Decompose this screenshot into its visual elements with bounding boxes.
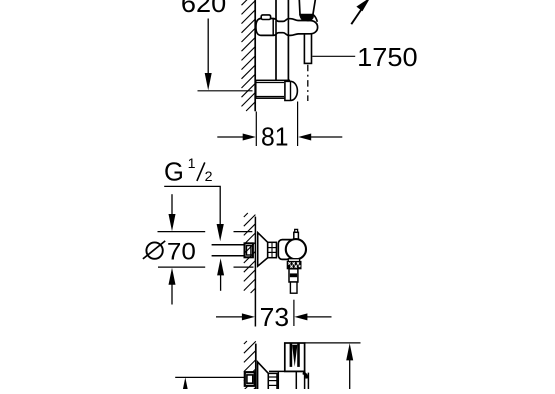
rail edges visible through slider <box>275 21 277 34</box>
svg-text:G: G <box>164 159 184 187</box>
wall face line (bottom drawing) <box>255 344 257 389</box>
dimension 73 extension line (right) <box>293 300 295 326</box>
dimension 620 arrow <box>207 19 209 75</box>
dimension 73 arrows + lines <box>216 316 245 318</box>
handle arc (dark, bottom drawing) <box>303 373 307 379</box>
wall face line (upper drawing) <box>254 0 256 111</box>
supply hex nut (bottom drawing) <box>245 372 255 386</box>
svg-text:73: 73 <box>260 304 290 332</box>
supply pipe behind wall <box>212 244 245 246</box>
wall hatching (bottom drawing) <box>244 341 256 390</box>
rail wall bracket arm <box>256 80 289 98</box>
top stub knob <box>295 229 298 232</box>
bottom-left arrow (up) <box>182 377 189 394</box>
bottom-right extension line <box>305 342 361 344</box>
hose centreline (dash-dot) <box>307 65 309 101</box>
shower outlet tube <box>289 269 298 282</box>
dimension 81 extension lines <box>255 112 257 147</box>
flow direction arrow (top right) <box>351 9 362 25</box>
hand shower spray face (dark) <box>299 14 314 21</box>
valve body <box>278 240 295 260</box>
valve body (bottom drawing, top view) <box>269 371 308 390</box>
svg-text:2: 2 <box>205 169 213 185</box>
escutcheon cone (bottom drawing, top view) <box>258 362 269 390</box>
adapter ring <box>268 242 277 257</box>
wall hatching (top view wall, upper drawing) <box>242 0 256 111</box>
G 1/2 leader line <box>164 186 220 226</box>
hose end leader line to 1750 <box>312 55 355 57</box>
D70 upper extension line <box>158 231 206 233</box>
cup collar right of spray face <box>314 15 318 22</box>
wall hatching (middle drawing) <box>244 213 256 293</box>
knurled hose nut (crosshatched) <box>288 259 299 262</box>
bracket end cap <box>285 81 298 100</box>
slider holder + shower cup body <box>256 19 318 36</box>
D70 lower extension line <box>158 266 205 268</box>
adapter ring (bottom drawing) <box>268 373 277 390</box>
bottom-right arrow (up) <box>346 343 353 360</box>
svg-text:1750: 1750 <box>357 44 418 72</box>
svg-text:620: 620 <box>181 0 226 18</box>
svg-text:1: 1 <box>188 156 196 172</box>
dimension D70 upper arrow <box>171 194 173 215</box>
hand shower handle <box>299 0 315 15</box>
hose outlet seen end-on (bottom drawing) <box>285 343 305 371</box>
temperature knob (circle) <box>286 239 306 259</box>
dimension D70 text <box>146 242 162 258</box>
escutcheon cone <box>258 233 268 267</box>
slider release button <box>261 15 270 20</box>
G 1/2 lower arrow <box>217 258 224 275</box>
bottom-left dimension line <box>175 376 246 378</box>
svg-text:70: 70 <box>167 239 196 266</box>
dimension 81 arrows + lines <box>217 136 244 138</box>
hand shower hose <box>304 33 311 63</box>
supply hex nut <box>245 243 253 257</box>
wall face line + 73 extension (middle drawing) <box>254 217 256 327</box>
svg-text:81: 81 <box>261 124 289 152</box>
shower rail tube <box>275 0 277 81</box>
D70 lower arrow <box>169 268 176 285</box>
dimension 620 extension line <box>198 90 253 92</box>
